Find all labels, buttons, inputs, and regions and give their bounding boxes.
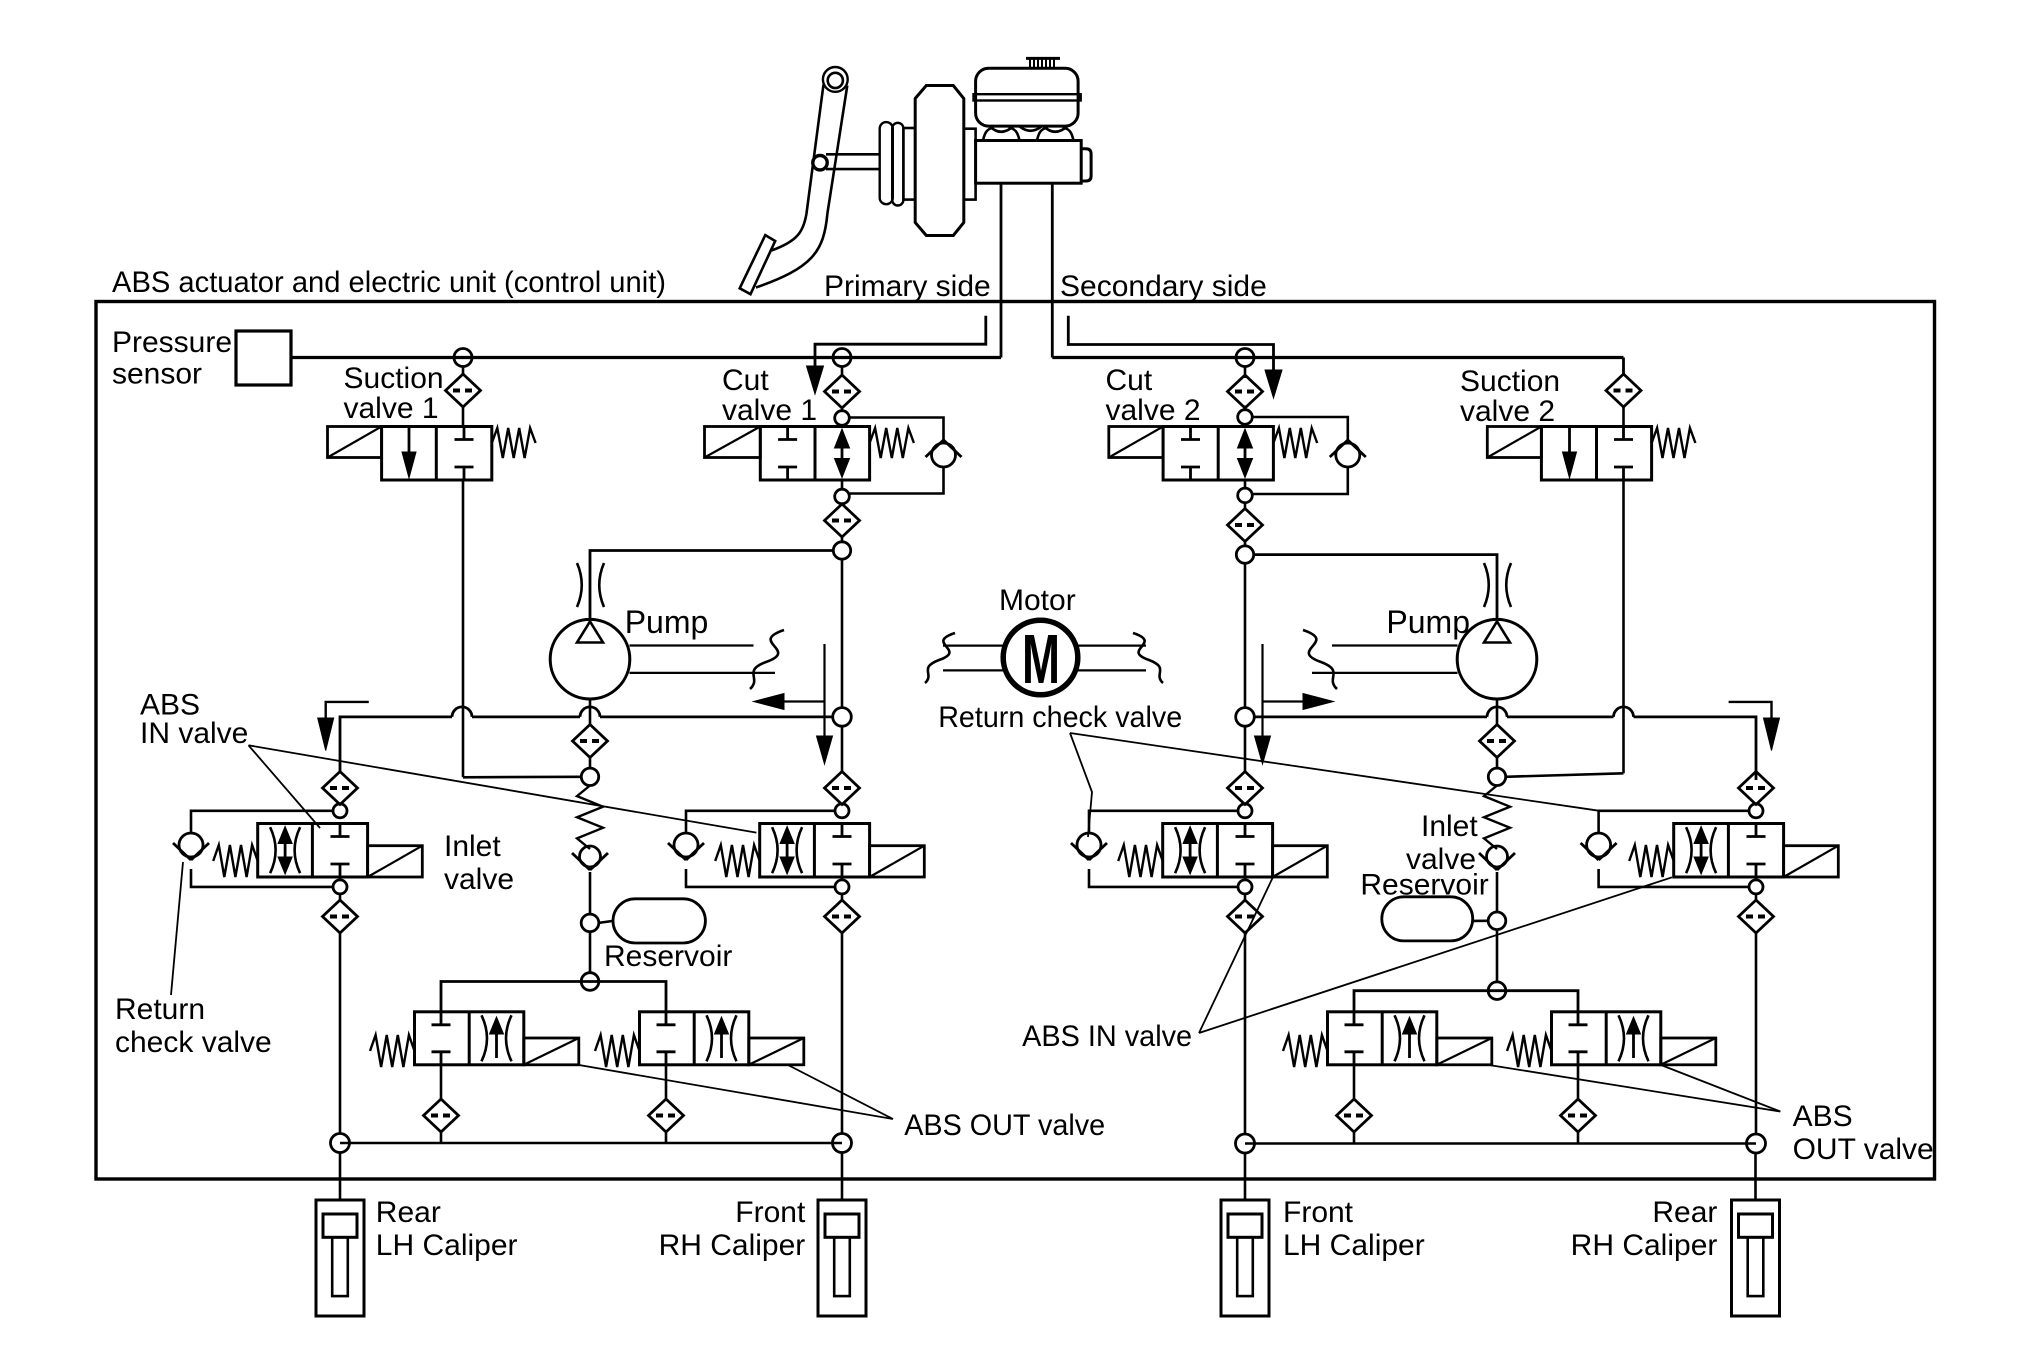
ABS IN valve front-left solenoid [368, 846, 423, 877]
svg-text:check valve: check valve [115, 1026, 272, 1059]
svg-text:Rear: Rear [1652, 1196, 1717, 1229]
wire: pump 1 discharge line [590, 551, 833, 620]
ABS IN valve rear-left body [1163, 824, 1273, 878]
ABS IN valve rear-left bypass wire [1089, 811, 1238, 833]
suction valve 1 filter [462, 367, 465, 375]
ABS OUT valve 3 spring [1283, 1035, 1328, 1067]
leader: ABS OUT valve left to valve 2 [788, 1065, 893, 1119]
ABS IN valve rear-right bypass wire [1599, 811, 1749, 833]
reservoir scallop center [1020, 127, 1042, 131]
pump 1 shaft lines [630, 644, 754, 646]
ABS OUT valve 2 spring [595, 1035, 640, 1067]
svg-text:M: M [1022, 620, 1060, 698]
ABS IN valve rear-left closed position [1244, 824, 1247, 837]
ABS IN valve rear-right return check valve [1587, 833, 1611, 857]
leader: ABS IN valve left to valve 1 [249, 745, 321, 828]
ABS IN valve front-left body [258, 824, 368, 878]
node bottom left at front RH caliper [833, 1134, 852, 1153]
ABS IN valve front-left bypass wire [191, 811, 333, 833]
node on out line left [581, 973, 599, 991]
wire: node to reservoir right [1473, 919, 1489, 922]
suction valve 2 body [1541, 427, 1651, 481]
ABS IN valve front-left output filter [339, 894, 342, 900]
wire: cut valve 2 output [1244, 480, 1247, 488]
brake booster body [915, 86, 964, 236]
wire: cut valve 1 down to return bus [841, 559, 844, 708]
ABS IN valve front-right closed position [841, 824, 844, 837]
node above cut valve 2 [1238, 410, 1253, 425]
cut valve 1 bypass wire [849, 418, 944, 444]
ABS OUT valve 4 closed position [1577, 1012, 1580, 1025]
return check valve right column [1487, 846, 1508, 867]
return bus hop over pump 2 outlet [1487, 707, 1507, 717]
svg-text:valve: valve [444, 863, 514, 896]
ABS OUT valve 4 open position [1619, 1015, 1625, 1061]
ABS OUT valve 3 closed position [1353, 1012, 1356, 1025]
wire: suction valve 1 output [462, 480, 465, 777]
return check valve left column [580, 846, 601, 867]
motor shaft right squiggle [1133, 633, 1163, 683]
ABS IN valve front-left return check valve [179, 833, 203, 857]
wire: suction valve 1 to pump node [463, 775, 581, 778]
brake pedal arm curve to pad [772, 213, 807, 250]
svg-text:sensor: sensor [112, 358, 202, 391]
leader: return check valve to IN valve 3 check [1070, 733, 1092, 837]
ABS IN valve front-right spring [715, 845, 760, 877]
ABS IN valve rear-left solenoid [1273, 846, 1328, 877]
motor shaft left lines [943, 644, 1005, 646]
brake pedal pad [740, 235, 776, 294]
flow arrow down into right ABS IN valve [1729, 702, 1772, 722]
wire: rear LH caliper feed [339, 1152, 342, 1200]
wire: secondary bus elbow down to suction valve 2 filter [1622, 358, 1625, 375]
ABS IN valve rear-right body [1674, 824, 1784, 878]
suction valve 2 solenoid [1487, 427, 1541, 458]
svg-text:ABS actuator and electric unit: ABS actuator and electric unit (control … [112, 266, 666, 299]
wire: pump 2 discharge line [1254, 555, 1497, 620]
cut valve 1 spring [870, 428, 914, 458]
ABS IN valve front-right body [760, 824, 870, 878]
wire: cut valve 2 line to IN valve 3 [1244, 726, 1247, 771]
cut valve 1 closed position [786, 427, 789, 440]
pump 1 inlet filter [573, 725, 608, 758]
svg-text:Front: Front [1283, 1196, 1354, 1229]
secondary branch pipe to cut valve 2 [1068, 316, 1273, 372]
flow arrow left of cut valve 1 line [823, 644, 825, 738]
front RH caliper piston [825, 1214, 859, 1237]
leader: left return check valve label [171, 862, 183, 995]
ABS OUT valve 2 open position [707, 1015, 713, 1061]
ABS OUT valve 1 solenoid [524, 1038, 579, 1065]
brake pedal pivot [823, 67, 848, 92]
flow arrow right of cut valve 2 line [1261, 644, 1263, 738]
booster rear plate [964, 129, 976, 200]
suction valve 1 solenoid [328, 427, 382, 458]
svg-text:Motor: Motor [999, 584, 1076, 617]
ABS IN valve rear-left restriction position [1175, 827, 1181, 873]
suction valve 1 open position arrow [408, 427, 411, 456]
svg-text:valve 1: valve 1 [722, 394, 817, 427]
svg-text:Pump: Pump [1386, 604, 1470, 640]
leader: ABS IN valve right to valve 3 [1199, 877, 1273, 1033]
pump 2 inlet filter [1480, 725, 1515, 758]
wire: left caliper bottom line [340, 1142, 842, 1145]
wire: right OUT valves top line [1354, 991, 1578, 1012]
leader: ABS OUT valve left to valve 1 [579, 1065, 893, 1119]
node bottom left at rear LH caliper [331, 1134, 350, 1153]
node below cut valve 1 [835, 489, 850, 504]
ABS OUT valve 2 output filter [665, 1065, 668, 1099]
wire: IN valve 2 to front RH caliper node [841, 933, 844, 1134]
svg-text:Inlet: Inlet [444, 830, 501, 863]
wire: right caliper bottom line [1245, 1142, 1756, 1145]
booster bellows ring 2 [892, 123, 903, 206]
node at reservoir right [1488, 912, 1506, 930]
wire: cut valve 2 down to return bus [1244, 563, 1247, 708]
ABS IN valve front-right output filter [841, 894, 844, 900]
svg-text:RH Caliper: RH Caliper [1571, 1229, 1718, 1262]
wire: suction valve 2 output [1622, 480, 1625, 773]
node on bus at suction valve 1 [454, 349, 472, 367]
leader: ABS OUT valve right to valve 3 [1489, 1065, 1780, 1112]
ABS OUT valve 1 output filter [440, 1065, 443, 1099]
wire: IN valve 3 to front LH caliper node [1244, 933, 1247, 1135]
ABS OUT valve 4 body [1552, 1012, 1661, 1065]
svg-text:Primary side: Primary side [824, 270, 991, 303]
node pump 2 suction junction [1488, 768, 1505, 785]
pedal pushrod pin [813, 156, 827, 170]
node on bus at cut valve 2 [1236, 349, 1254, 367]
leader: ABS OUT valve right to valve 4 [1661, 1065, 1780, 1112]
cut valve 2 body [1163, 427, 1273, 481]
pump 2 shaft lines [1332, 644, 1458, 646]
svg-text:Return check valve: Return check valve [938, 701, 1182, 734]
svg-text:Return: Return [115, 993, 205, 1026]
leader: ABS IN valve right to valve 4 [1199, 877, 1672, 1033]
node above ABS IN valve front-right [841, 803, 844, 806]
cut valve 1 open position double arrow [841, 445, 844, 462]
rear LH caliper body [316, 1200, 364, 1316]
brake pedal arm [807, 85, 824, 214]
svg-text:Reservoir: Reservoir [604, 940, 732, 973]
return bus hop over pump 1 outlet [580, 707, 600, 717]
node cut valve 1 to pump 1 junction [833, 542, 850, 559]
master cylinder end cap [1081, 149, 1091, 181]
ABS IN valve rear-right output filter [1755, 894, 1758, 900]
wire: pump 1 outlet down [589, 699, 592, 725]
rear LH caliper piston [323, 1214, 357, 1237]
svg-text:Pump: Pump [625, 604, 709, 640]
ABS OUT valve 1 open position [482, 1015, 488, 1061]
motor shaft right lines [1077, 644, 1147, 646]
svg-text:Front: Front [735, 1196, 806, 1229]
node below ABS IN valve front-left [333, 880, 347, 894]
wire: primary supply bus [291, 356, 1001, 359]
svg-text:ABS IN valve: ABS IN valve [1022, 1020, 1192, 1053]
cut valve 1 filter [841, 367, 844, 376]
wire: front LH caliper feed [1244, 1152, 1247, 1200]
cut valve 2 spring [1273, 428, 1317, 458]
pump 1 triangle [577, 622, 603, 643]
ABS OUT valve 3 open position [1395, 1015, 1401, 1061]
ABS actuator and electric unit enclosure box [96, 302, 1935, 1180]
svg-text:ABS: ABS [1793, 1100, 1853, 1133]
ABS OUT valve 4 spring [1507, 1035, 1552, 1067]
ABS IN valve front-right filter [825, 772, 860, 805]
return bus hop over suction valve 2 line [1614, 707, 1634, 717]
pump 1 circle [550, 619, 630, 699]
ABS IN valve front-right restriction position [772, 827, 778, 873]
return bus hop over suction valve 1 line [452, 707, 472, 717]
pump 2 shaft squiggle [1303, 630, 1337, 689]
cut valve 2 open position double arrow [1244, 445, 1247, 462]
ABS IN valve front-left restriction position [270, 827, 276, 873]
ABS IN valve rear-right closed position [1755, 824, 1758, 837]
wire: front RH caliper feed [841, 1152, 844, 1200]
cut valve 1 bypass check valve [932, 443, 956, 467]
cut valve 2 filter [1244, 367, 1247, 379]
ABS IN valve front-right solenoid [870, 846, 925, 877]
ABS IN valve rear-right filter [1739, 772, 1774, 805]
ABS OUT valve 1 closed position [440, 1012, 443, 1025]
leader: return check valve to IN valve 4 check [1070, 733, 1599, 811]
reservoir outlet funnel right [1037, 128, 1048, 141]
node right return bus at cut valve 2 line [1236, 708, 1255, 727]
svg-text:Rear: Rear [376, 1196, 441, 1229]
svg-text:Suction: Suction [1460, 365, 1560, 398]
ABS IN valve rear-left filter [1228, 772, 1263, 805]
node above ABS IN valve rear-right [1755, 803, 1758, 806]
ABS IN valve rear-left spring [1118, 845, 1163, 877]
return spring column right [1484, 786, 1510, 850]
ABS IN valve front-left filter [323, 772, 358, 805]
svg-text:LH Caliper: LH Caliper [376, 1229, 518, 1262]
cut valve 2 bypass check valve [1336, 443, 1360, 467]
svg-text:LH Caliper: LH Caliper [1283, 1229, 1425, 1262]
pump 1 inlet suction marks [577, 563, 582, 607]
primary outlet pipe [1000, 183, 1003, 357]
node above ABS IN valve front-left [339, 803, 342, 806]
cut valve 1 body [760, 427, 869, 481]
wire: suction valve 2 to pump 2 node [1506, 773, 1624, 777]
wire: rear RH caliper feed [1754, 1152, 1757, 1200]
suction valve 2 open position arrow [1568, 427, 1571, 456]
front RH caliper body [818, 1200, 866, 1316]
cut valve 2 closed position [1189, 427, 1192, 440]
front LH caliper piston [1228, 1214, 1262, 1237]
ABS OUT valve 3 body [1328, 1012, 1437, 1065]
ABS IN valve rear-right solenoid [1784, 846, 1839, 877]
front LH caliper body [1221, 1200, 1269, 1316]
node above ABS IN valve rear-left [1244, 803, 1247, 806]
suction valve 2 spring [1652, 428, 1696, 458]
svg-text:ABS OUT valve: ABS OUT valve [904, 1109, 1105, 1142]
cut valve 2 bypass wire [1252, 417, 1348, 443]
svg-text:IN valve: IN valve [140, 717, 248, 750]
svg-text:valve 2: valve 2 [1106, 394, 1201, 427]
wire: reservoir node down to out line left [589, 932, 592, 973]
svg-text:valve 1: valve 1 [344, 392, 439, 425]
wire: left OUT valves top line [441, 982, 666, 1012]
svg-text:Suction: Suction [344, 362, 444, 395]
suction valve 2 filter [1606, 374, 1641, 407]
pump 2 triangle [1484, 622, 1510, 643]
motor circle [1003, 620, 1078, 695]
ABS IN valve rear-left return check valve [1077, 833, 1101, 857]
ABS IN valve front-left closed position [339, 824, 342, 837]
ABS IN valve front-right return check valve [674, 833, 698, 857]
wire: filter to pump inlet node [589, 758, 592, 769]
wire: filter to pump 2 inlet node [1496, 758, 1499, 769]
pump 2 circle [1457, 619, 1537, 699]
wire: pump 2 outlet down [1496, 699, 1499, 725]
node cut valve 2 to pump 2 junction [1236, 546, 1253, 563]
node above cut valve 1 [835, 411, 850, 426]
wire: node to reservoir left [599, 921, 613, 923]
node left return bus at cut valve 1 line [833, 708, 852, 727]
reservoir band [974, 94, 1081, 100]
flow arrow into cut valve 1 [807, 366, 824, 394]
motor shaft left squiggle [925, 633, 955, 683]
master cylinder barrel [976, 141, 1082, 184]
reservoir right capsule [1382, 897, 1473, 941]
ABS OUT valve 1 spring [370, 1035, 415, 1067]
pressure sensor box [236, 331, 291, 385]
cut valve 2 solenoid [1109, 427, 1163, 458]
node on out line right [1488, 982, 1506, 1000]
suction valve 1 spring [492, 428, 536, 458]
wire: right return bus [1254, 717, 1756, 780]
leader: ABS IN valve left to valve 2 [249, 745, 757, 832]
rear RH caliper piston [1739, 1214, 1773, 1237]
node pump 1 suction junction [581, 768, 598, 785]
ABS OUT valve 4 solenoid [1661, 1038, 1716, 1065]
flow arrow into cut valve 2 [1265, 370, 1282, 398]
svg-text:valve 2: valve 2 [1460, 395, 1555, 428]
ABS OUT valve 2 closed position [665, 1012, 668, 1025]
suction valve 1 body [382, 427, 492, 481]
node bottom right at rear RH caliper [1747, 1134, 1766, 1153]
ABS OUT valve 1 body [415, 1012, 524, 1065]
ABS IN valve front-left spring [213, 845, 258, 877]
svg-text:Reservoir: Reservoir [1360, 869, 1488, 902]
wire: secondary supply bus [1052, 356, 1623, 359]
svg-text:Cut: Cut [1106, 364, 1153, 397]
wire: cut valve 1 line to IN valve 2 [841, 726, 844, 771]
node below cut valve 2 [1238, 488, 1253, 503]
rear RH caliper body [1732, 1200, 1780, 1316]
node on bus at cut valve 1 [833, 349, 851, 367]
svg-text:Inlet: Inlet [1421, 810, 1478, 843]
pump 1 shaft squiggle [750, 630, 784, 689]
ABS IN valve front-right bypass wire [686, 811, 835, 833]
ABS IN valve rear-left output filter [1244, 894, 1247, 900]
pump 2 inlet suction marks [1484, 563, 1489, 607]
ABS IN valve rear-right restriction position [1686, 827, 1692, 873]
pushrod to booster [826, 153, 879, 156]
reservoir body [976, 68, 1079, 126]
ABS OUT valve 2 solenoid [749, 1038, 804, 1065]
node below ABS IN valve rear-right [1749, 880, 1763, 894]
ABS OUT valve 4 output filter [1577, 1065, 1580, 1099]
reservoir cap [1026, 57, 1060, 60]
cut valve 1 output filter [825, 504, 860, 537]
wire: reservoir node down to out line right [1496, 930, 1499, 983]
svg-text:Secondary side: Secondary side [1060, 270, 1267, 303]
flow arrow down into left ABS IN valve [326, 702, 369, 722]
booster bellows ring 1 [880, 122, 893, 204]
wire: cut valve 1 output [841, 480, 844, 489]
ABS OUT valve 3 output filter [1353, 1065, 1356, 1099]
cut valve 1 solenoid [705, 427, 761, 458]
node at reservoir left [581, 914, 599, 932]
svg-text:Cut: Cut [722, 364, 769, 397]
reservoir outlet funnel left [983, 128, 994, 141]
secondary outlet pipe [1051, 183, 1054, 357]
suction valve 2 closed position [1622, 427, 1625, 440]
svg-text:RH Caliper: RH Caliper [659, 1229, 806, 1262]
node below ABS IN valve front-right [835, 880, 849, 894]
cut valve 2 output filter [1228, 509, 1263, 542]
node bottom right at front LH caliper [1236, 1134, 1255, 1153]
node below ABS IN valve rear-left [1238, 880, 1252, 894]
ABS IN valve rear-right spring [1629, 845, 1674, 877]
wire: IN valve 4 to rear RH caliper node [1755, 933, 1758, 1135]
reservoir left capsule [613, 899, 705, 943]
svg-text:OUT valve: OUT valve [1793, 1133, 1934, 1166]
primary branch pipe to cut valve 1 [815, 316, 986, 372]
booster front plate [903, 128, 915, 200]
svg-text:Pressure: Pressure [112, 326, 232, 359]
ABS OUT valve 3 solenoid [1437, 1038, 1492, 1065]
wire: IN valve 1 to rear LH caliper node [339, 933, 342, 1134]
ABS OUT valve 2 body [640, 1012, 749, 1065]
wire: left return bus [340, 717, 833, 773]
suction valve 1 closed position [463, 427, 466, 440]
return spring column left [577, 786, 603, 850]
